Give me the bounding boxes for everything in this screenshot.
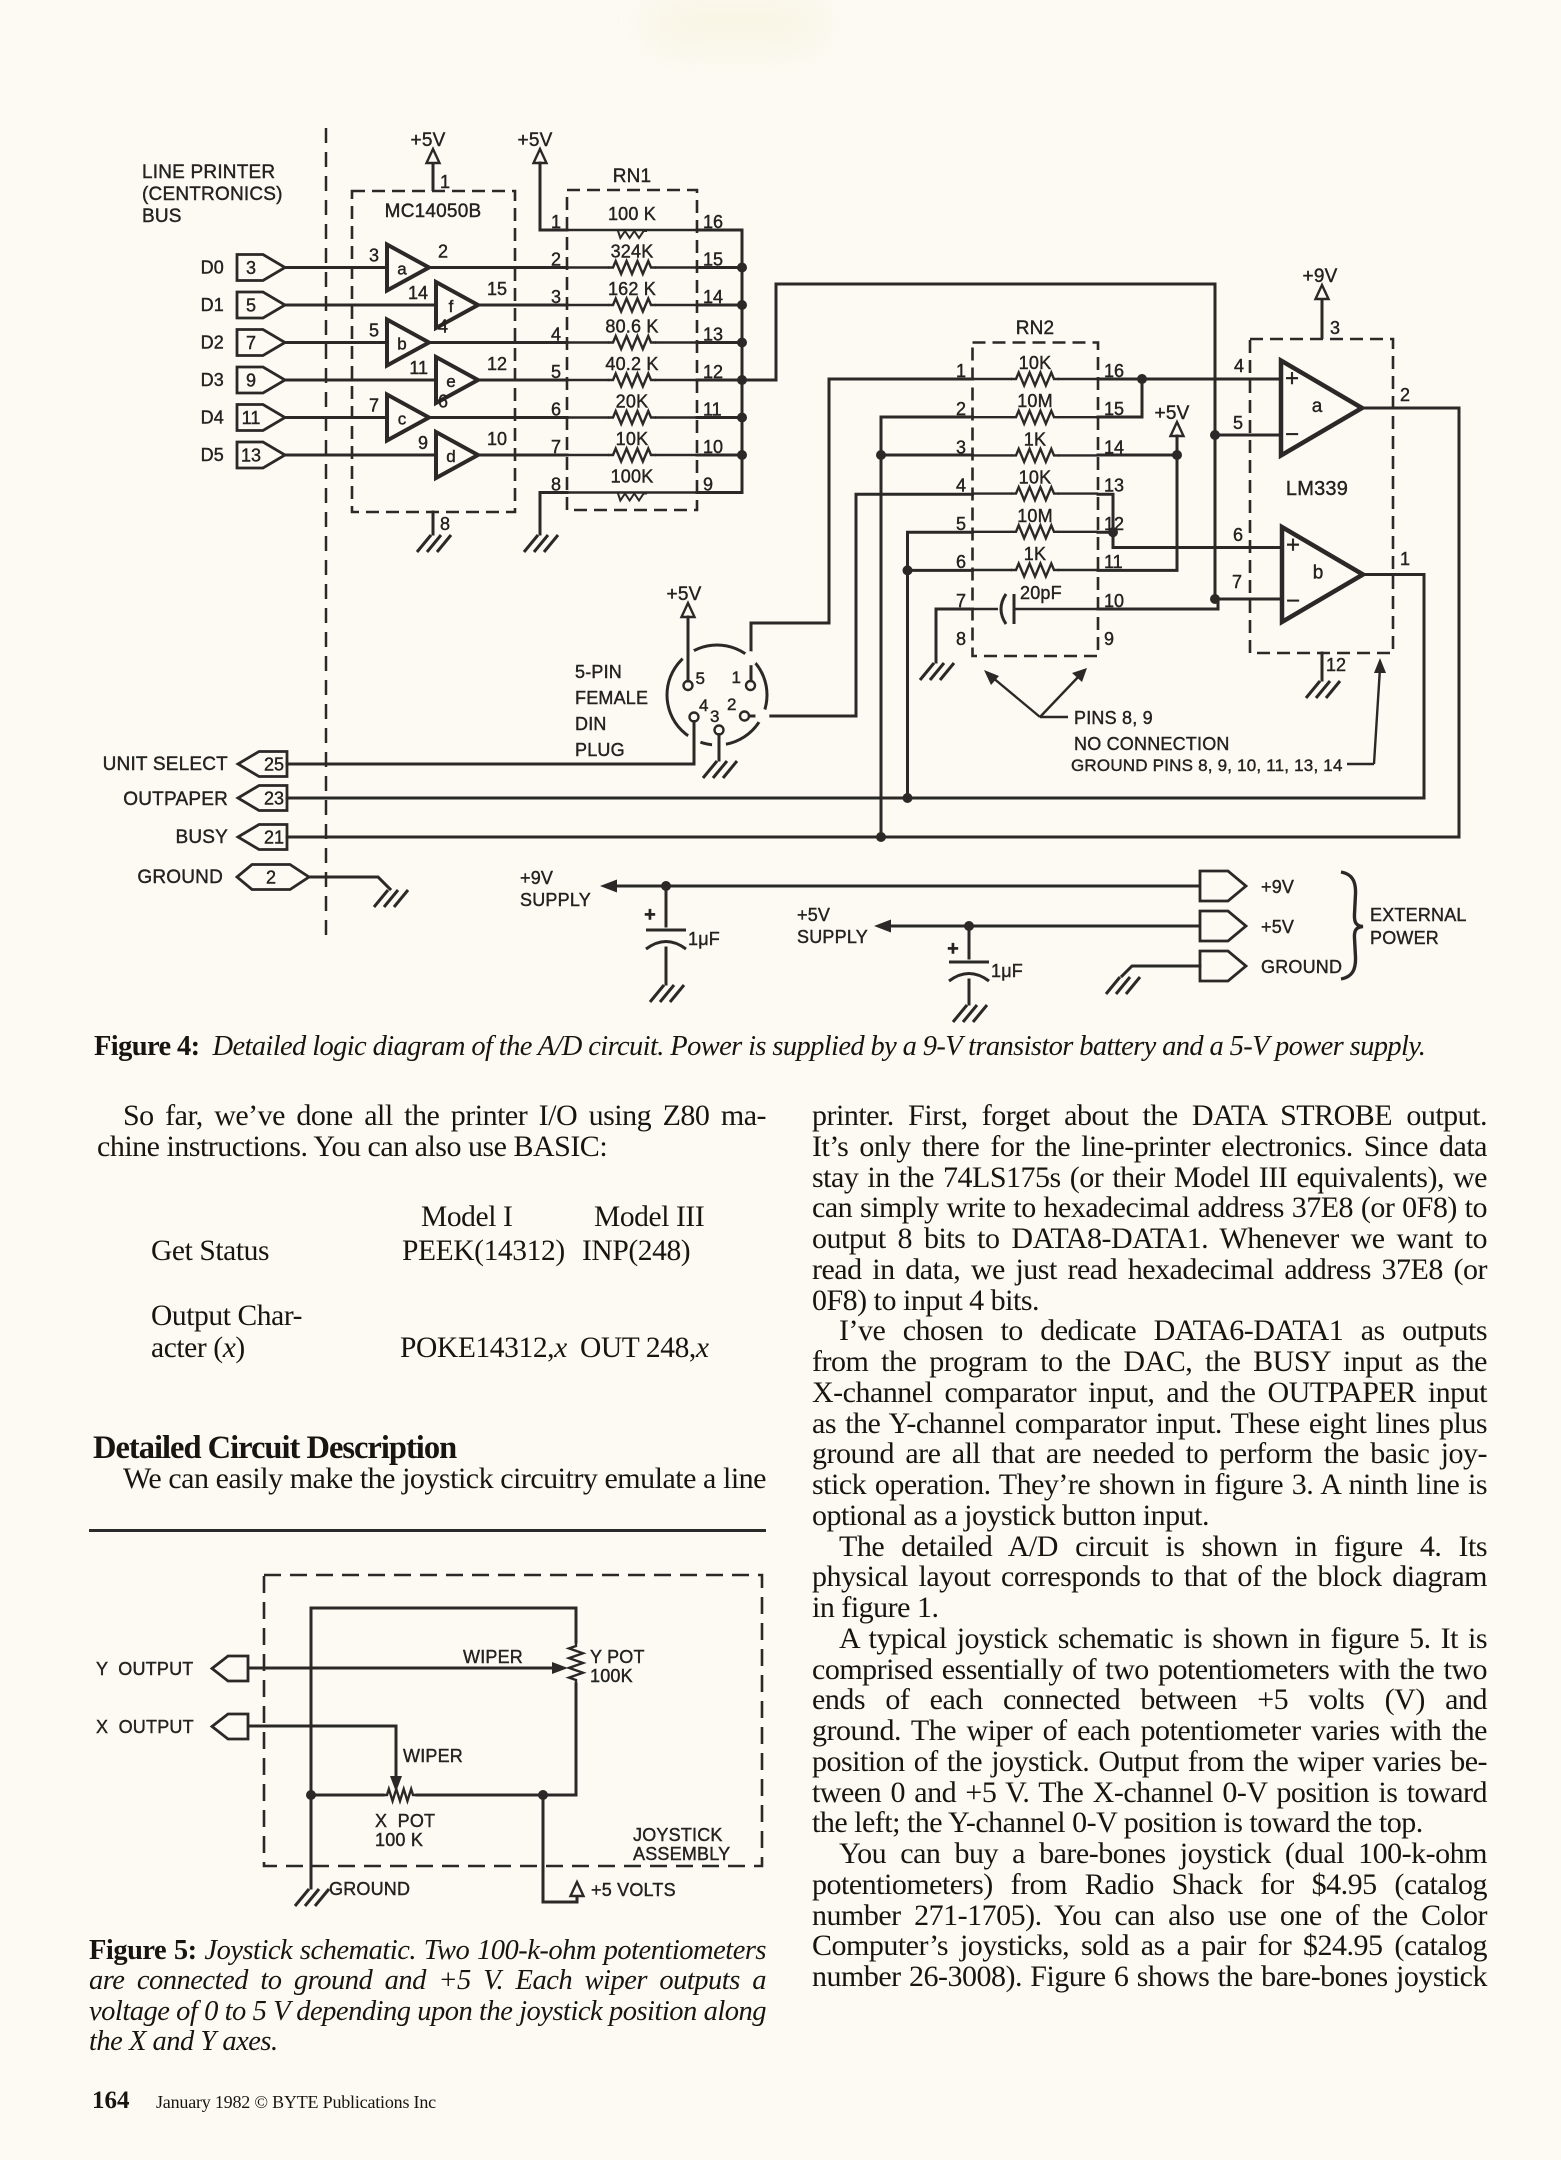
label LINE PRINTER (CENTRONICS) BUS line 1: [142, 162, 275, 183]
resistor RN2 element 6 (1K): [956, 544, 1123, 577]
wire DIN pin 4 to UNIT SELECT: [287, 722, 694, 765]
pin 3 LM339: [1330, 318, 1340, 338]
connector OUTPAPER pin 23: [238, 786, 287, 811]
caption figure 5: [89, 1936, 766, 2057]
node bus junction row 15: [737, 263, 747, 273]
connector external +5V: [1200, 911, 1246, 941]
wire D3 to buffer e input: [285, 379, 436, 382]
label UNIT SELECT: [103, 754, 229, 775]
svg-text:RN2: RN2: [1016, 318, 1055, 339]
wire comparator a inverting input (pin 5): [1215, 434, 1281, 437]
op-amp U2a comparator (LM339 a): [1281, 361, 1362, 456]
wire DIN pin 3 to ground: [718, 735, 721, 761]
wire RN1 pin 12 to bus: [697, 379, 742, 382]
resistor RN1 element 2 (324K): [551, 242, 723, 275]
wire RN2 pin 15 tie to pin 16: [1098, 379, 1142, 417]
svg-text:23: 23: [264, 789, 284, 809]
svg-text:X OUTPUT: X OUTPUT: [96, 1717, 194, 1737]
svg-text:+5V: +5V: [667, 584, 702, 605]
buffer U1c (MC14050B section c): [387, 395, 429, 441]
node bus junction row 14: [737, 300, 747, 310]
svg-text:D2: D2: [201, 333, 224, 353]
label MC14050B: [385, 201, 482, 222]
connector UNIT SELECT pin 25: [238, 752, 287, 777]
svg-text:3: 3: [1330, 318, 1340, 338]
label D1: [201, 295, 224, 315]
node Y comparator input (pins 12-13): [1108, 527, 1118, 537]
svg-text:b: b: [1313, 563, 1324, 584]
heading: [93, 1432, 456, 1465]
svg-text:10K: 10K: [1019, 353, 1052, 373]
svg-text:PLUG: PLUG: [575, 740, 625, 760]
connector J1 5-pin female DIN plug outline: [667, 645, 769, 752]
wire +5V down to RN2 pin 11: [1098, 436, 1177, 570]
svg-text:GROUND: GROUND: [329, 1879, 410, 1899]
svg-text:5: 5: [1233, 413, 1243, 433]
svg-text:3: 3: [710, 707, 719, 726]
op-amp U2b comparator (LM339 b): [1282, 527, 1363, 622]
resistor RN1 element 8 (100K): [551, 467, 713, 501]
resistor RN1 element 5 (40.2K): [551, 354, 723, 387]
label X OUTPUT: [96, 1717, 194, 1737]
svg-text:5: 5: [696, 669, 705, 688]
wire RN2 pin 6 to node: [908, 569, 973, 572]
svg-text:+5V: +5V: [1155, 403, 1190, 424]
wire RN2 pin 2 down to BUSY line: [881, 417, 973, 837]
svg-text:d: d: [446, 447, 455, 466]
wire buffer a output to RN1: [429, 266, 567, 269]
svg-text:LM339: LM339: [1286, 478, 1348, 500]
label DIN pin 5: [696, 669, 705, 688]
label DIN pin 3: [710, 707, 719, 726]
svg-text:10M: 10M: [1017, 391, 1053, 411]
svg-text:f: f: [449, 297, 454, 316]
ground RN2 pin 7: [920, 663, 954, 680]
svg-text:100 K: 100 K: [608, 204, 656, 224]
svg-text:D3: D3: [201, 370, 224, 390]
svg-text:5: 5: [369, 321, 379, 341]
svg-text:6: 6: [551, 400, 561, 420]
label ext +5V: [1261, 917, 1294, 937]
wire D0 to buffer a input: [285, 266, 387, 269]
label PLUG: [575, 740, 625, 760]
brace external power: [1341, 872, 1363, 979]
svg-text:−: −: [1285, 421, 1299, 448]
svg-text:1: 1: [732, 668, 741, 687]
label ASSEMBLY: [633, 1844, 730, 1864]
svg-text:40.2 K: 40.2 K: [605, 354, 658, 374]
connector D4 pin 11: [237, 405, 285, 431]
IC U2 LM339 dashed outline: [1250, 339, 1393, 653]
svg-text:14: 14: [408, 283, 428, 303]
wire Y wiper (Y OUTPUT): [248, 1662, 568, 1674]
wire RN1 pin 15 to bus: [697, 266, 742, 269]
pin 6 LM339: [1233, 525, 1243, 545]
svg-text:5: 5: [551, 362, 561, 382]
svg-text:9: 9: [1104, 629, 1114, 649]
svg-text:D0: D0: [201, 258, 224, 278]
IC U1 MC14050B dashed outline: [352, 191, 515, 512]
svg-text:5: 5: [246, 296, 256, 316]
svg-text:4: 4: [1234, 356, 1244, 376]
svg-text:GROUND: GROUND: [137, 867, 223, 888]
buffer U1f (MC14050B section f): [436, 282, 478, 328]
svg-text:21: 21: [264, 828, 284, 848]
ground C2: [953, 1005, 987, 1022]
wire RN2 pin 3 to node: [881, 454, 973, 457]
wire comparator b inverting input (pin 7): [1218, 598, 1282, 601]
svg-text:2: 2: [551, 250, 561, 270]
label Y POT: [590, 1647, 645, 1667]
power +5V (DIN pin 5): [667, 584, 702, 617]
wire ground rail to ground: [310, 1795, 313, 1888]
svg-text:7: 7: [246, 333, 256, 353]
svg-text:10K: 10K: [1019, 468, 1052, 488]
connector D2 pin 7: [237, 330, 285, 356]
label C1 value 1µF: [688, 929, 720, 949]
wire buffer e output to RN1: [478, 379, 567, 382]
svg-text:LINE PRINTER: LINE PRINTER: [142, 162, 275, 183]
label GROUND (bus): [137, 867, 223, 888]
svg-text:WIPER: WIPER: [403, 1746, 463, 1766]
svg-text:15: 15: [487, 279, 507, 299]
node ground rail left: [306, 1790, 316, 1800]
wire +5V feed: [543, 1795, 584, 1902]
wire RN1 pin 11 to bus: [697, 416, 742, 419]
wire pot top rail: [311, 1608, 576, 1795]
label C2 value 1µF: [991, 961, 1023, 981]
svg-text:EXTERNAL: EXTERNAL: [1370, 905, 1467, 925]
label WIPER (X): [403, 1746, 463, 1766]
connector X OUTPUT: [212, 1714, 248, 1739]
annotation GROUND PINS 8,9,10,11,13,14: [1071, 658, 1386, 775]
wire X wiper (X OUTPUT): [248, 1726, 402, 1792]
connector external GROUND: [1200, 951, 1246, 981]
svg-text:JOYSTICK: JOYSTICK: [633, 1825, 723, 1845]
label DIN pin 2: [727, 695, 736, 714]
resistor RN1 element 4 (80.6K): [551, 317, 723, 350]
buffer U1a (MC14050B section a): [387, 245, 429, 291]
svg-text:+: +: [644, 904, 656, 926]
label +9V SUPPLY: [520, 868, 591, 910]
label ext GROUND: [1261, 957, 1342, 977]
wire D1 to buffer f input: [285, 304, 436, 307]
wire RN2 pin 13 tie to pin 12 and comparator b input: [1098, 494, 1282, 547]
svg-text:c: c: [398, 410, 407, 429]
page background tint: [650, 0, 820, 45]
label C2 plus: [947, 938, 959, 960]
svg-text:+5V: +5V: [411, 130, 446, 151]
svg-text:Y POT: Y POT: [590, 1647, 645, 1667]
wire GROUND pin 2 to ground: [309, 877, 390, 889]
svg-text:+5V: +5V: [797, 905, 830, 925]
svg-text:20K: 20K: [616, 392, 649, 412]
svg-text:−: −: [1286, 588, 1300, 615]
joystick assembly dashed outline: [264, 1575, 762, 1866]
power +5V (RN1 pin 1): [518, 130, 553, 163]
node +5V at RN2 pin 14: [1172, 450, 1182, 460]
svg-text:OUTPAPER: OUTPAPER: [123, 789, 228, 810]
resistor network RN1 dashed outline: [567, 190, 697, 510]
pin 10 buffer d output: [487, 429, 507, 449]
ground RN1 pin 8: [524, 535, 558, 552]
column rule: [89, 1529, 766, 1532]
svg-text:3: 3: [551, 287, 561, 307]
pin 15 buffer f output: [487, 279, 507, 299]
wire Y pot to ground rail: [575, 1684, 578, 1795]
pin 1 LM339: [1400, 549, 1410, 569]
svg-text:3: 3: [246, 258, 256, 278]
wire RN1 pin 10 to bus: [697, 454, 742, 457]
svg-text:12: 12: [1326, 655, 1346, 675]
svg-text:2: 2: [438, 242, 448, 262]
ground DIN pin 3: [703, 761, 737, 778]
node bus junction row 11: [737, 413, 747, 423]
wire ground rail: [311, 1794, 383, 1797]
svg-text:11: 11: [242, 408, 261, 428]
svg-text:+: +: [1285, 365, 1299, 392]
svg-text:+: +: [1286, 532, 1300, 559]
svg-text:12: 12: [487, 354, 507, 374]
svg-text:4: 4: [956, 476, 966, 496]
wire RN1 output bus vertical: [697, 230, 742, 493]
connector D1 pin 5: [237, 292, 285, 318]
svg-text:10M: 10M: [1017, 506, 1053, 526]
label D4: [201, 408, 224, 428]
power +5V (RN2 pins 14,11 pull-up): [1155, 403, 1190, 436]
svg-text:+9V: +9V: [520, 868, 553, 888]
wire D2 to buffer b input: [285, 341, 387, 344]
capacitor 20pF (RN2 pins 7-10): [956, 583, 1124, 624]
connector external +9V: [1200, 871, 1246, 901]
svg-text:1: 1: [1400, 549, 1410, 569]
connector D3 pin 9: [237, 367, 285, 393]
svg-text:D5: D5: [201, 445, 224, 465]
node comparator a output on BUSY line: [876, 832, 886, 842]
svg-text:POWER: POWER: [1370, 928, 1439, 948]
wire DAC node to comparator inverting inputs: [742, 284, 1215, 599]
svg-text:BUSY: BUSY: [175, 827, 228, 848]
power +5V (U1 pin 1): [411, 130, 446, 191]
pin 5 buffer b input: [369, 321, 379, 341]
connector D5 pin 13: [237, 442, 285, 468]
svg-text:Y OUTPUT: Y OUTPUT: [96, 1659, 193, 1679]
node +5V tap: [538, 1790, 548, 1800]
label OUTPAPER: [123, 789, 228, 810]
svg-text:4: 4: [699, 696, 708, 715]
caption figure 4: [94, 1032, 1494, 1062]
pin 4 LM339: [1234, 356, 1244, 376]
node bus junction row 12: [737, 375, 747, 385]
svg-text:b: b: [397, 335, 406, 354]
svg-text:10K: 10K: [616, 429, 649, 449]
svg-text:1μF: 1μF: [688, 929, 720, 949]
label GROUND (joystick): [329, 1879, 410, 1899]
node bus junction row 10: [737, 450, 747, 460]
svg-text:8: 8: [440, 514, 450, 534]
label BUSY: [175, 827, 228, 848]
wire D4 to buffer c input: [285, 416, 387, 419]
label D0: [201, 258, 224, 278]
wire buffer f output to RN1: [478, 304, 567, 307]
node 5V filter cap junction: [964, 921, 974, 931]
wire RN2 pin 4 to DIN pin 2 (Y wiper): [749, 494, 973, 716]
wire RN2 pin 5 down to OUTPAPER line: [908, 532, 973, 798]
svg-text:9: 9: [418, 433, 428, 453]
pin 5 LM339: [1233, 413, 1243, 433]
connector D0 pin 3: [237, 255, 285, 281]
svg-text:11: 11: [409, 358, 428, 378]
pin 7 buffer c input: [369, 396, 379, 416]
svg-text:4: 4: [551, 325, 561, 345]
wire cap C1 to +9V line: [665, 886, 668, 926]
footer: [92, 2088, 130, 2114]
wire C1 to ground: [665, 948, 668, 984]
wire +9V supply line: [600, 880, 1200, 893]
connector Y OUTPUT: [212, 1656, 248, 1681]
svg-text:+9V: +9V: [1303, 266, 1338, 287]
label RN1: [613, 166, 652, 187]
resistor RN1 element 1 (100K): [551, 204, 723, 238]
svg-text:3: 3: [369, 246, 379, 266]
svg-text:1K: 1K: [1024, 429, 1046, 449]
potentiometer X POT 100K: [383, 1789, 417, 1801]
svg-text:PINS 8, 9: PINS 8, 9: [1074, 708, 1153, 728]
svg-text:100K: 100K: [590, 1666, 633, 1686]
pin 9 buffer d input: [418, 433, 428, 453]
dashed line: line-printer bus boundary: [325, 128, 328, 940]
label +5V SUPPLY: [797, 905, 868, 947]
wire D5 to buffer d input: [285, 454, 436, 457]
node 9V filter cap junction: [661, 881, 671, 891]
wire C2 to ground: [968, 980, 971, 1004]
svg-text:D4: D4: [201, 408, 224, 428]
svg-text:RN1: RN1: [613, 166, 652, 187]
connector BUSY pin 21: [238, 825, 287, 850]
wire +5V to DIN pin 5: [687, 617, 690, 681]
label DIN pin 4: [699, 696, 708, 715]
node DAC at comparator b inverting input: [1210, 594, 1220, 604]
svg-text:6: 6: [438, 392, 448, 412]
svg-text:100 K: 100 K: [375, 1830, 423, 1850]
wire LM339 pin 12 to ground: [1321, 653, 1324, 680]
pin 8 U1: [440, 514, 450, 534]
svg-text:9: 9: [246, 371, 256, 391]
pin 5 DIN: [684, 681, 693, 690]
wire RN2 pin 10 to DAC node: [1098, 599, 1218, 609]
label DIN: [575, 714, 607, 734]
svg-text:+9V: +9V: [1261, 877, 1294, 897]
svg-text:UNIT SELECT: UNIT SELECT: [103, 754, 229, 775]
pin 14 buffer f input: [408, 283, 428, 303]
svg-text:SUPPLY: SUPPLY: [797, 927, 868, 947]
svg-text:FEMALE: FEMALE: [575, 688, 648, 708]
wire cap C2 to +5V line: [968, 926, 971, 958]
pin 9 RN2: [1104, 629, 1114, 649]
svg-text:WIPER: WIPER: [463, 1647, 523, 1667]
svg-text:13: 13: [241, 446, 261, 466]
svg-text:MC14050B: MC14050B: [385, 201, 482, 222]
svg-text:13: 13: [1104, 476, 1124, 496]
pin 3 DIN: [715, 726, 724, 735]
pin 2 DIN: [740, 712, 749, 721]
potentiometer Y POT 100K: [569, 1642, 583, 1684]
svg-text:25: 25: [264, 755, 284, 775]
connector GROUND pin 2: [237, 865, 309, 890]
wire +5V supply line: [874, 920, 1200, 933]
label EXTERNAL POWER: [1370, 905, 1467, 948]
wire RN2 pin 16 to comparator a noninverting input: [1098, 378, 1281, 381]
svg-text:6: 6: [1233, 525, 1243, 545]
wire comparator b output (pin 1) to OUTPAPER: [1366, 575, 1424, 799]
left column paragraph 1: [97, 1101, 766, 1163]
wire RN1 pin 8 to ground: [540, 493, 567, 535]
pin 3 buffer a input: [369, 246, 379, 266]
wire RN2 pin 7 to ground: [936, 609, 973, 662]
wire U1 pin 8 to ground: [432, 512, 435, 534]
svg-text:+5V: +5V: [1261, 917, 1294, 937]
label ext +9V: [1261, 877, 1294, 897]
pin 11 buffer e input: [409, 358, 428, 378]
ground C1: [650, 985, 684, 1002]
pin 8 RN2: [956, 629, 966, 649]
node DAC at comparator a inverting input: [1210, 430, 1220, 440]
annotation PINS 8,9 NO CONNECTION: [984, 668, 1230, 754]
svg-text:SUPPLY: SUPPLY: [520, 890, 591, 910]
wire ground rail right: [417, 1794, 576, 1797]
wire OUTPAPER line: [287, 797, 1424, 800]
svg-text:+5 VOLTS: +5 VOLTS: [591, 1880, 676, 1900]
node RN2 pins 2-3 junction: [876, 450, 886, 460]
label D2: [201, 333, 224, 353]
pin 2 LM339: [1400, 385, 1410, 405]
svg-text:2: 2: [727, 695, 736, 714]
capacitor C1 1uF: [646, 930, 686, 949]
wire buffer c output to RN1: [429, 416, 567, 419]
node RN2 pins 5-6 junction: [903, 565, 913, 575]
label LM339: [1286, 478, 1348, 500]
right column body text: [812, 1101, 1487, 1993]
resistor RN1 element 3 (162K): [551, 279, 723, 312]
svg-text:5-PIN: 5-PIN: [575, 662, 622, 682]
ground joystick: [295, 1889, 329, 1906]
svg-text:8: 8: [956, 629, 966, 649]
node comparator b output on OUTPAPER line: [903, 793, 913, 803]
buffer U1b (MC14050B section b): [387, 320, 429, 366]
svg-text:1: 1: [440, 172, 450, 192]
svg-text:NO CONNECTION: NO CONNECTION: [1074, 734, 1230, 754]
label X POT: [375, 1811, 435, 1831]
label line 3: [142, 206, 182, 227]
svg-text:10: 10: [487, 429, 507, 449]
svg-text:ASSEMBLY: ASSEMBLY: [633, 1844, 730, 1864]
wire +5V to RN1 pin 1: [540, 163, 567, 230]
svg-text:BUS: BUS: [142, 206, 182, 227]
label D5: [201, 445, 224, 465]
svg-text:e: e: [446, 372, 455, 391]
pin 6 buffer c output: [438, 392, 448, 412]
wire RN1 pin 13 to bus: [697, 341, 742, 344]
svg-text:1K: 1K: [1024, 544, 1046, 564]
label X POT value: [375, 1830, 423, 1850]
svg-text:GROUND PINS 8, 9, 10, 11, 13,: GROUND PINS 8, 9, 10, 11, 13, 14: [1071, 756, 1343, 775]
svg-text:80.6 K: 80.6 K: [605, 317, 658, 337]
pin 12 LM339: [1326, 655, 1346, 675]
wire RN1 pin 14 to bus: [697, 304, 742, 307]
label C1 plus: [644, 904, 656, 926]
svg-text:20pF: 20pF: [1020, 583, 1062, 603]
svg-text:324K: 324K: [611, 242, 654, 262]
